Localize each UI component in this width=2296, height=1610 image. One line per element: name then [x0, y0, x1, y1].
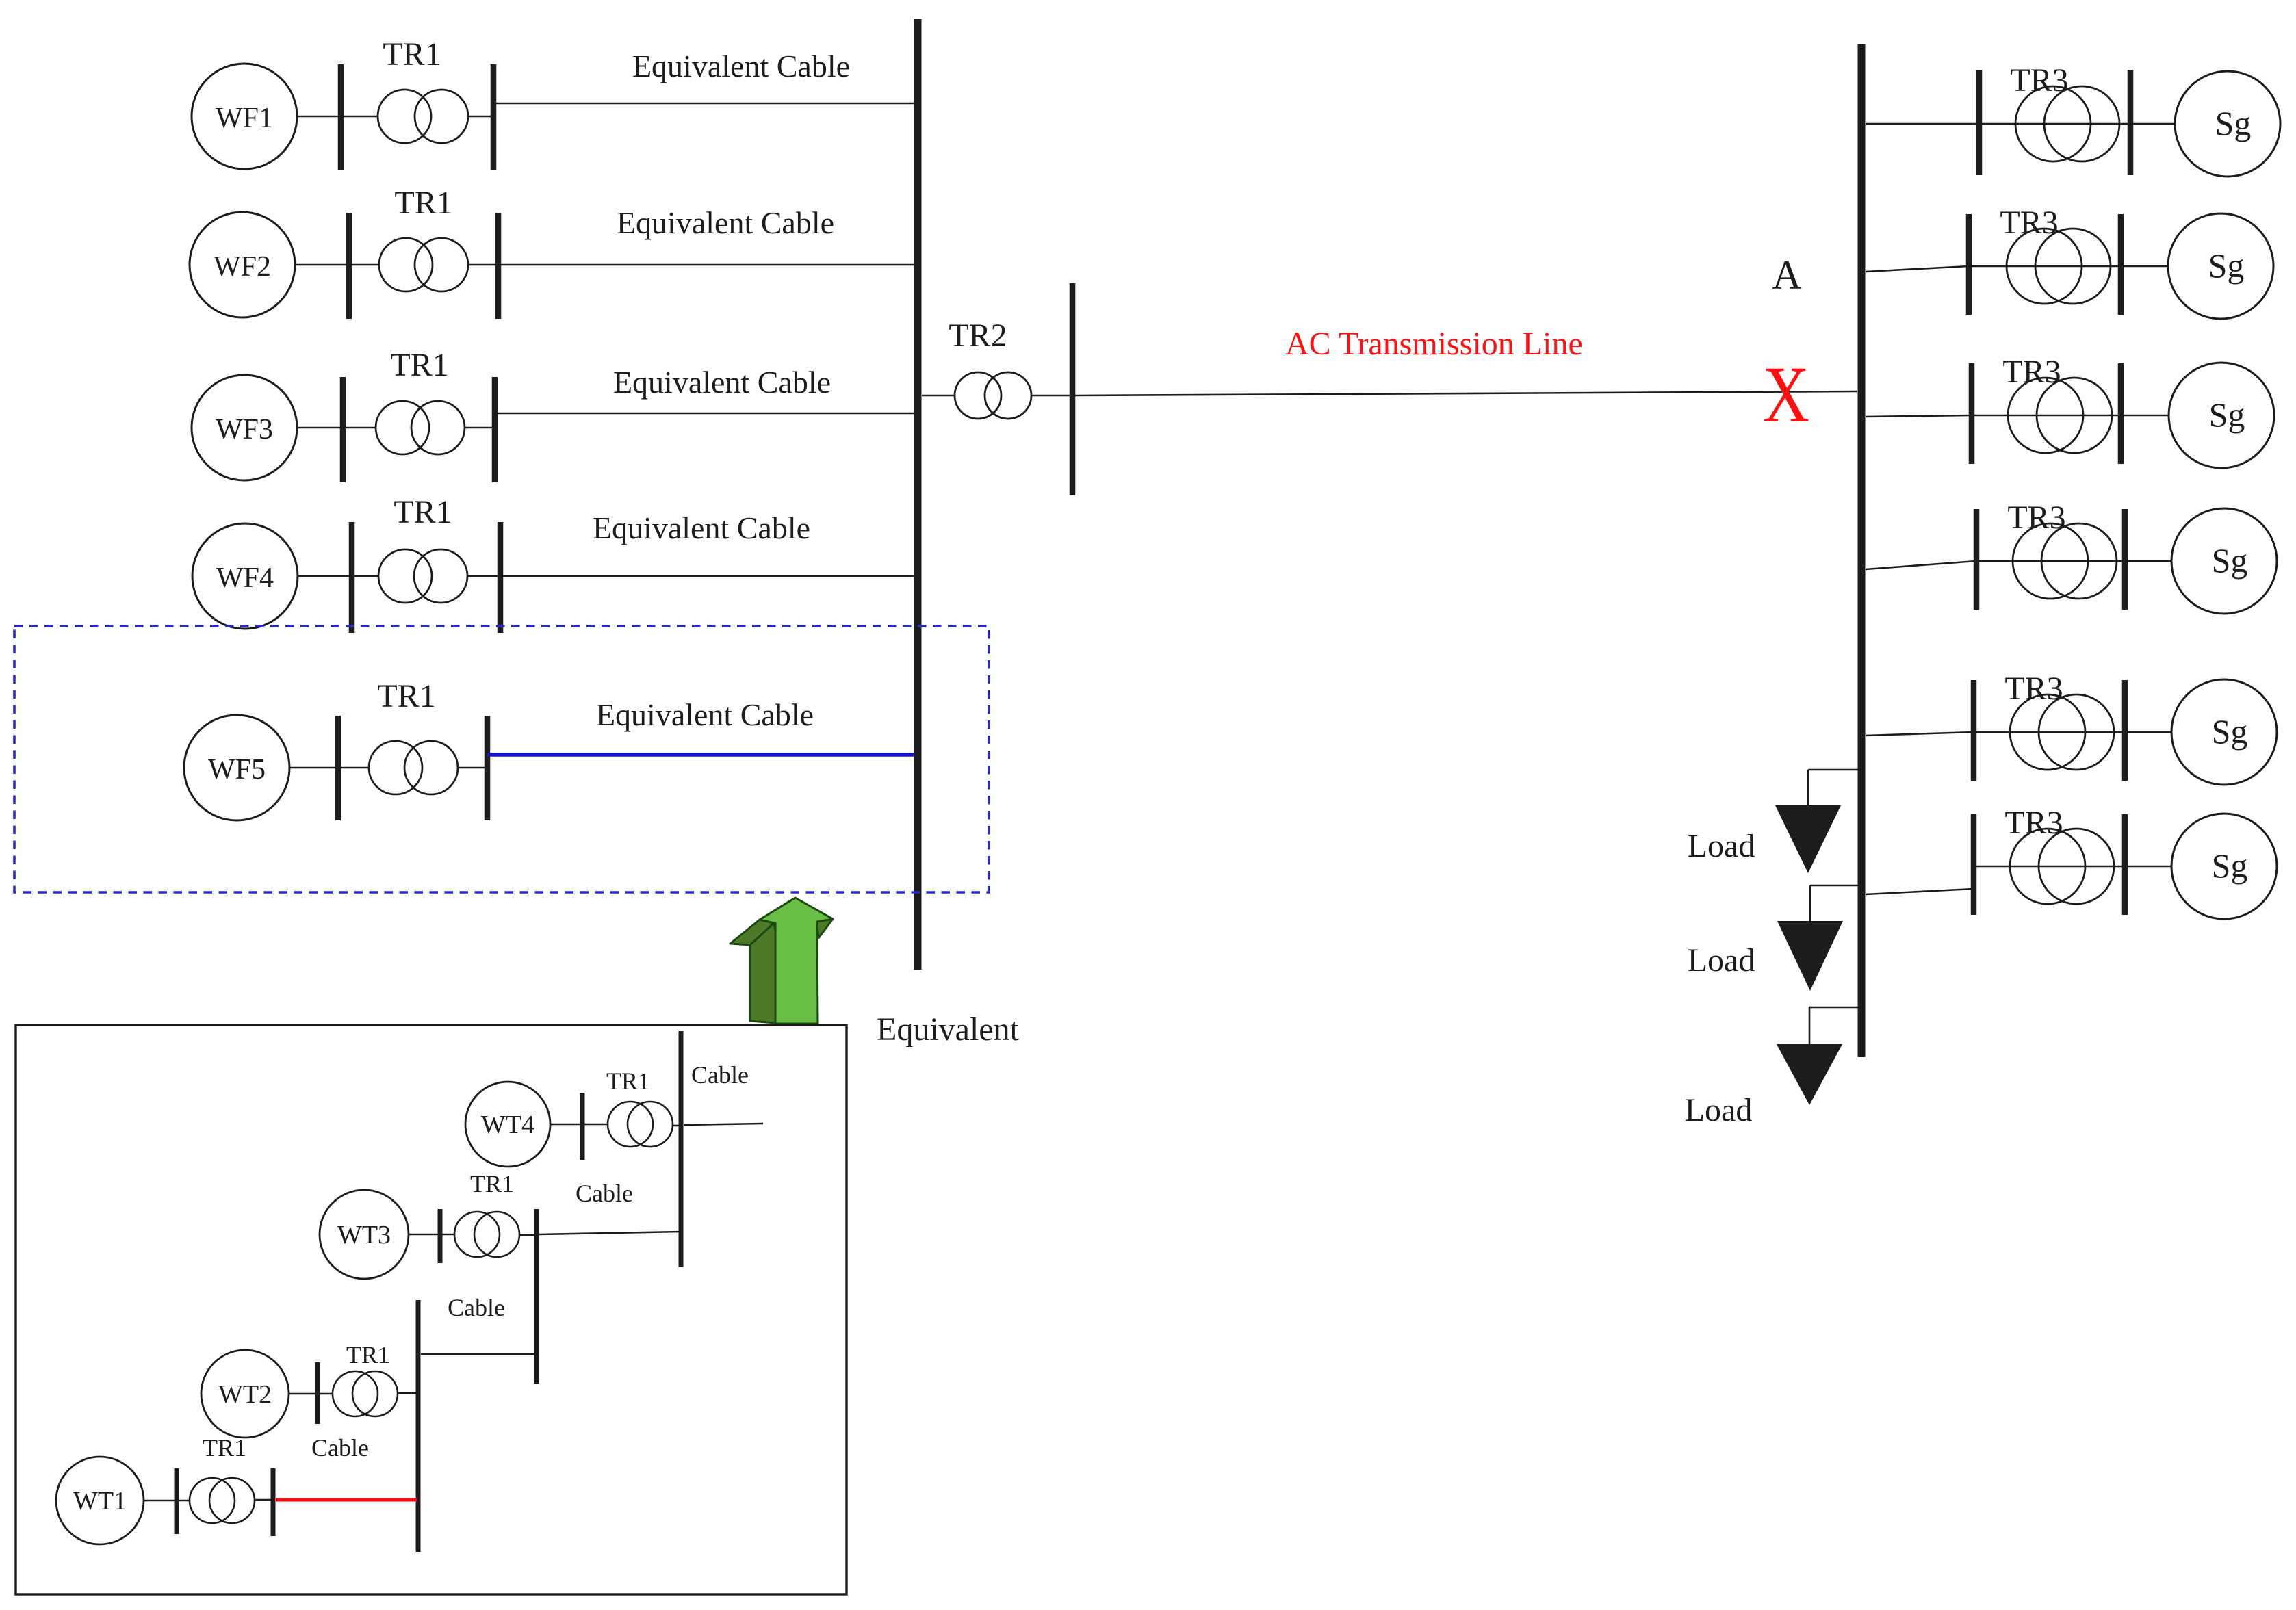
svg-text:TR1: TR1 — [390, 347, 448, 383]
svg-text:TR2: TR2 — [949, 317, 1007, 354]
svg-text:Sg: Sg — [2209, 395, 2245, 434]
svg-text:Sg: Sg — [2212, 712, 2248, 751]
svg-text:TR1: TR1 — [346, 1341, 390, 1368]
svg-text:Sg: Sg — [2208, 246, 2245, 285]
svg-text:WT1: WT1 — [73, 1487, 127, 1516]
svg-text:TR3: TR3 — [2004, 671, 2063, 707]
svg-text:WT3: WT3 — [337, 1221, 391, 1249]
svg-text:Equivalent: Equivalent — [877, 1011, 1020, 1048]
svg-text:Equivalent Cable: Equivalent Cable — [613, 365, 831, 400]
svg-text:WT2: WT2 — [218, 1380, 272, 1409]
svg-text:Cable: Cable — [691, 1061, 749, 1089]
svg-text:Load: Load — [1685, 1092, 1753, 1128]
svg-text:Equivalent Cable: Equivalent Cable — [593, 510, 810, 545]
svg-text:TR1: TR1 — [470, 1170, 514, 1197]
svg-text:Cable: Cable — [448, 1294, 505, 1321]
svg-text:WF2: WF2 — [214, 251, 271, 283]
svg-text:WF3: WF3 — [216, 414, 273, 445]
svg-text:TR1: TR1 — [203, 1434, 246, 1462]
svg-text:TR1: TR1 — [383, 36, 441, 73]
svg-text:TR1: TR1 — [394, 494, 452, 530]
svg-text:Sg: Sg — [2212, 541, 2248, 580]
svg-text:AC Transmission Line: AC Transmission Line — [1285, 326, 1583, 362]
svg-text:Sg: Sg — [2215, 104, 2252, 142]
svg-text:WF5: WF5 — [208, 754, 266, 785]
svg-text:TR3: TR3 — [2002, 354, 2061, 390]
svg-text:Sg: Sg — [2212, 846, 2248, 885]
svg-text:Equivalent Cable: Equivalent Cable — [632, 49, 850, 83]
svg-text:TR1: TR1 — [606, 1067, 650, 1095]
svg-text:TR1: TR1 — [394, 185, 452, 221]
svg-text:TR3: TR3 — [2007, 499, 2065, 536]
svg-text:Load: Load — [1688, 828, 1755, 864]
svg-text:Load: Load — [1688, 942, 1755, 978]
svg-text:TR3: TR3 — [2010, 62, 2068, 99]
svg-text:X: X — [1763, 350, 1809, 439]
svg-text:WT4: WT4 — [481, 1111, 534, 1139]
svg-text:Equivalent Cable: Equivalent Cable — [617, 205, 834, 240]
svg-text:WF1: WF1 — [216, 103, 273, 134]
svg-text:TR3: TR3 — [2000, 205, 2058, 241]
svg-text:TR1: TR1 — [377, 678, 435, 714]
svg-text:Cable: Cable — [576, 1180, 633, 1207]
svg-text:WF4: WF4 — [216, 562, 274, 594]
svg-text:Equivalent Cable: Equivalent Cable — [596, 697, 814, 732]
svg-text:TR3: TR3 — [2004, 805, 2063, 841]
svg-text:A: A — [1772, 252, 1801, 298]
svg-text:Cable: Cable — [311, 1434, 369, 1462]
